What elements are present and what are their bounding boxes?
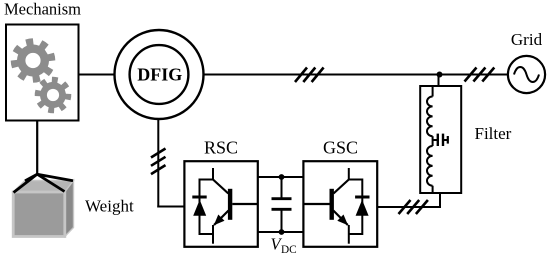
svg-text:GSC: GSC [323,138,358,158]
svg-text:Weight: Weight [85,197,134,216]
svg-text:DC: DC [281,244,297,255]
svg-text:DFIG: DFIG [137,65,182,85]
svg-text:Grid: Grid [511,30,543,49]
svg-text:RSC: RSC [204,138,238,158]
svg-text:Mechanism: Mechanism [4,0,81,19]
svg-text:Filter: Filter [475,124,512,143]
